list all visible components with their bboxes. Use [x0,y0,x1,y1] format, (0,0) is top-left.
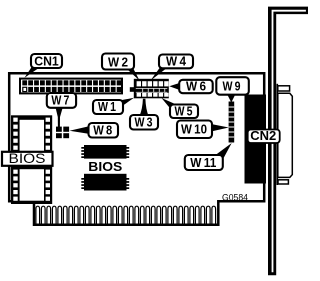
mounting bracket (L-shaped slot bracket) [268,7,308,276]
callout W6 [169,79,212,94]
svg-text:W 10: W 10 [181,122,207,137]
connector CN2 body (black block on card) [245,95,267,184]
callout W8 [70,123,119,138]
callout W4 [151,54,194,81]
svg-text:W 8: W 8 [93,123,112,138]
svg-text:W 6: W 6 [186,79,206,94]
svg-text:BIOS: BIOS [88,159,122,174]
svg-text:G0584: G0584 [222,192,248,203]
svg-text:W 11: W 11 [190,155,216,170]
callout W2 [102,54,140,81]
BIOS DIP sockets (film-strip outline, two stacked) [11,115,52,204]
callout W5 [162,98,199,118]
svg-text:W 3: W 3 [135,115,153,130]
svg-text:CN2: CN2 [250,129,276,143]
callout W3 [130,99,158,130]
card outline (PCB with bottom edge-connector tab) [9,73,264,225]
svg-text:W 2: W 2 [108,54,128,69]
label CN2 [248,129,280,143]
callout W10 [177,121,229,139]
jumper strip W9/W10/W11 (vertical header) [229,102,235,143]
svg-text:W 7: W 7 [51,93,69,108]
callout W1 [93,98,134,114]
callout W7 [47,93,76,127]
BIOS PLCC chip (black body, white label band) [81,145,129,191]
svg-text:W 4: W 4 [166,54,187,69]
BIOS label (boxed text over socket) [2,151,53,166]
jumper W7/W8 (2x2 block) [56,127,69,139]
jumper block W1-W6 (3x6 header) [130,79,169,99]
connector CN2 D-sub shell (side view through bracket) [277,84,292,185]
svg-text:W 1: W 1 [98,99,116,114]
svg-text:BIOS: BIOS [9,151,46,166]
svg-text:W 5: W 5 [175,103,193,118]
callout W11 [185,143,232,170]
callout W9 [216,77,249,102]
connector CN1 (dual-row pin header, pin 1 marked) [20,79,122,94]
callout CN1 [25,54,63,78]
edge connector gold fingers [36,206,216,224]
svg-text:W 9: W 9 [223,78,241,93]
svg-text:CN1: CN1 [34,54,59,69]
